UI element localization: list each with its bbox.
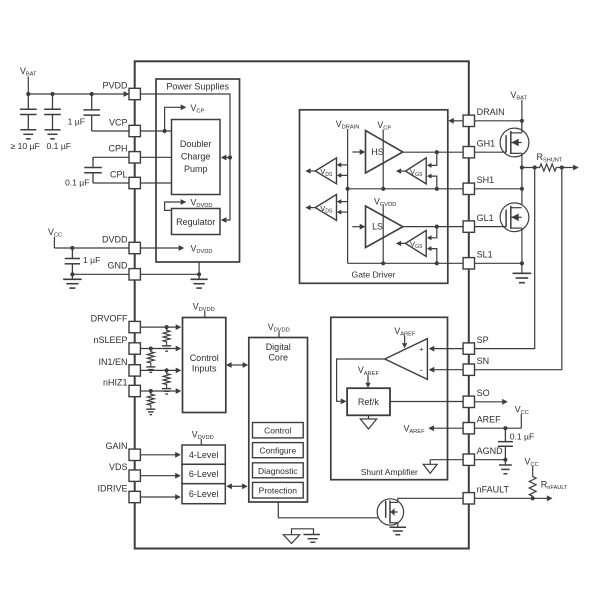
- ground power stage: [513, 272, 532, 274]
- svg-text:LS: LS: [372, 222, 383, 232]
- svg-text:Regulator: Regulator: [176, 217, 215, 227]
- arrow VCP out: [181, 104, 187, 110]
- wire GH1 external: [475, 151, 507, 153]
- wire VDVDD to control inputs: [204, 311, 206, 318]
- junction shunt node: [520, 165, 524, 169]
- junction GND-C4: [70, 272, 74, 276]
- junction SH1 node: [520, 187, 524, 191]
- resistor RSHUNT: [539, 164, 558, 171]
- svg-text:1 µF: 1 µF: [68, 117, 85, 127]
- ground M3 source: [397, 523, 399, 528]
- svg-text:AREF: AREF: [477, 415, 502, 425]
- junction SH1-VGS1: [435, 187, 439, 191]
- svg-text:VDS: VDS: [109, 462, 128, 472]
- junction VBAT-C1: [26, 92, 30, 96]
- svg-text:+: +: [419, 344, 424, 353]
- wire GND internal: [140, 273, 199, 275]
- pin SP: [463, 343, 474, 354]
- pin AGND: [463, 454, 474, 465]
- ground under C4: [71, 274, 73, 279]
- amplifier HS: [366, 131, 403, 174]
- pin GAIN: [129, 449, 140, 460]
- resistor R-nSLEEP pulldown: [147, 349, 154, 365]
- ground inside IC: [198, 274, 200, 279]
- junction PVDD-DCP: [228, 155, 232, 159]
- pin AREF: [463, 423, 474, 434]
- wire VBAT right stub: [521, 100, 523, 129]
- wire SH1 internal: [348, 188, 464, 190]
- svg-text:PVDD: PVDD: [102, 80, 128, 90]
- pin PVDD: [129, 88, 140, 99]
- arrow into PVDD pin: [124, 91, 130, 97]
- svg-text:Pump: Pump: [184, 164, 208, 174]
- arrow nHIZ1 in: [176, 388, 182, 394]
- wire GL1 internal: [403, 226, 463, 228]
- arrow VGS1 out: [396, 168, 401, 173]
- 6-level box B: [182, 484, 225, 504]
- wire shunt right: [557, 167, 573, 169]
- pin SO: [463, 396, 474, 407]
- svg-text:CPL: CPL: [110, 169, 128, 179]
- svg-text:1 µF: 1 µF: [83, 255, 100, 265]
- pin CPL: [129, 177, 140, 188]
- svg-text:SO: SO: [477, 388, 490, 398]
- capacitor C1 bulk: [27, 94, 29, 109]
- op-amp CSA: [385, 339, 428, 380]
- svg-text:VCP: VCP: [109, 117, 128, 127]
- arrow into regulator: [221, 217, 227, 223]
- 6-level box A: [182, 464, 225, 483]
- wire C3 to VCP pin: [92, 130, 129, 132]
- svg-text:SP: SP: [477, 335, 489, 345]
- ground AGND open triangle: [429, 460, 431, 465]
- wire GAIN internal: [140, 454, 176, 456]
- wire GH1 internal: [403, 151, 463, 153]
- svg-text:Doubler: Doubler: [180, 139, 212, 149]
- wire VDS internal: [140, 475, 176, 477]
- arrow DRAIN into gate driver: [448, 118, 454, 124]
- wire VGS1 bottom tap: [432, 176, 437, 189]
- wire GND pin left: [72, 273, 129, 275]
- svg-text:4-Level: 4-Level: [189, 450, 219, 460]
- wire op-amp feedback: [337, 359, 385, 401]
- arrow SP into op-amp: [429, 346, 435, 352]
- wire VCP pin to DCP: [140, 130, 171, 132]
- arrow VDVDD reg out: [181, 199, 187, 205]
- svg-text:CPH: CPH: [108, 144, 127, 154]
- wire HS input stub: [352, 151, 360, 153]
- wire AGND external: [475, 459, 506, 461]
- arrow VDS1 in top: [337, 162, 342, 167]
- svg-text:HS: HS: [371, 147, 383, 157]
- transistor M2 low-side: [500, 203, 529, 232]
- wire SN sense: [475, 168, 562, 370]
- svg-text:IN1/EN: IN1/EN: [98, 357, 127, 367]
- wire DRVOFF internal: [140, 326, 176, 328]
- junction nHIZ1 pull: [149, 389, 153, 393]
- arrow SN into op-amp: [429, 367, 435, 373]
- junction AREF cap: [503, 426, 507, 430]
- wire IN1/EN internal: [140, 369, 176, 371]
- wire CPL internal: [140, 182, 171, 184]
- svg-text:Gate Driver: Gate Driver: [352, 270, 396, 280]
- arrow IN1/EN in: [176, 368, 182, 374]
- wire DRAIN internal: [453, 120, 464, 122]
- protection sub-box: [253, 482, 304, 498]
- wire cap to CPL pin: [93, 182, 129, 184]
- pin IN1/EN: [129, 365, 140, 376]
- wire SO external: [475, 401, 503, 403]
- ground R-DRVOFF: [166, 344, 168, 346]
- svg-text:Charge: Charge: [181, 152, 211, 162]
- pin nSLEEP: [129, 343, 140, 354]
- svg-text:SL1: SL1: [477, 250, 493, 260]
- wire PS box to gnd: [198, 262, 200, 274]
- arrow VAREF opamp: [402, 343, 407, 348]
- arrow CI-DC left: [226, 362, 232, 368]
- wire M1 drain: [521, 121, 523, 133]
- junction nSLEEP pull: [149, 346, 153, 350]
- 4-level box: [182, 445, 225, 464]
- svg-text:SH1: SH1: [477, 175, 495, 185]
- svg-text:6-Level: 6-Level: [189, 469, 219, 479]
- ground R-nHIZ1: [150, 407, 152, 409]
- comparator VDS2: [315, 195, 336, 221]
- junction VGVDD-SL1: [381, 261, 385, 265]
- wire CPH internal: [140, 156, 171, 158]
- ground R-nSLEEP: [150, 365, 152, 367]
- resistor RnFAULT pullup: [529, 473, 536, 498]
- svg-text:Shunt Amplifier: Shunt Amplifier: [361, 467, 418, 477]
- pin nFAULT: [463, 493, 474, 504]
- arrow AREF to VAREF: [428, 425, 434, 431]
- arrow SO out: [502, 399, 508, 405]
- wire M2 source down: [521, 228, 523, 273]
- junction DRAIN-VBAT: [520, 119, 524, 123]
- svg-text:Control: Control: [190, 353, 219, 363]
- pin VCP: [129, 125, 140, 136]
- arrow VGS2 in bottom: [427, 246, 432, 251]
- junction SL1 node: [520, 261, 524, 265]
- junction VBAT-C2: [50, 92, 54, 96]
- wire shunt left: [522, 167, 539, 169]
- arrow into DCP: [221, 155, 227, 161]
- wire LS input stub: [352, 226, 360, 228]
- svg-text:Power Supplies: Power Supplies: [166, 82, 229, 92]
- arrow nFAULT out: [547, 495, 553, 501]
- arrow phase output: [573, 165, 579, 171]
- wire GL1 external: [475, 226, 507, 228]
- arrow VGS1 in bottom: [427, 174, 432, 179]
- svg-text:nFAULT: nFAULT: [477, 485, 510, 495]
- wire VAREF into op-amp: [404, 336, 406, 344]
- ground refk open triangle: [368, 415, 370, 419]
- svg-text:0.1 µF: 0.1 µF: [47, 141, 72, 151]
- svg-text:Configure: Configure: [259, 446, 296, 456]
- svg-text:Digital: Digital: [266, 342, 291, 352]
- svg-text:Diagnostic: Diagnostic: [258, 466, 298, 476]
- arrow VDS in: [175, 473, 181, 479]
- pin SN: [463, 364, 474, 375]
- svg-text:SN: SN: [477, 356, 490, 366]
- wire digital core to nfault fet gate: [278, 502, 385, 518]
- IC boundary box: [135, 61, 469, 548]
- arrow LS input: [360, 224, 366, 230]
- wire VGS2 bottom tap: [432, 249, 437, 264]
- arrow IDRIVE in: [175, 494, 181, 500]
- wire VCP branch up: [165, 107, 181, 131]
- svg-text:DVDD: DVDD: [102, 234, 128, 244]
- svg-text:0.1 µF: 0.1 µF: [65, 178, 90, 188]
- wire VCC stub: [53, 237, 55, 248]
- svg-text:≥ 10 µF: ≥ 10 µF: [11, 141, 40, 151]
- wire VGS2 top tap: [432, 227, 437, 238]
- doubler charge pump box U-DCP: [172, 120, 221, 195]
- wire VBAT to PVDD pin: [28, 93, 124, 95]
- wire PVDD internal: [140, 94, 230, 220]
- wire VDVDD to digital core: [278, 332, 280, 338]
- arrow GAIN in: [175, 452, 181, 458]
- junction AGND cap: [503, 458, 507, 462]
- svg-text:DRAIN: DRAIN: [477, 107, 505, 117]
- svg-text:DRVOFF: DRVOFF: [91, 314, 128, 324]
- transistor M3 nFAULT open-drain: [377, 499, 403, 525]
- wire VDRAIN vertical: [347, 129, 349, 263]
- svg-text:-: -: [420, 365, 423, 375]
- svg-text:GL1: GL1: [477, 213, 494, 223]
- wire level-protection bus: [231, 485, 243, 487]
- wire SL1 internal: [348, 262, 464, 264]
- pin CPH: [129, 152, 140, 163]
- power supplies box: [156, 79, 240, 262]
- wire PVDD to DCP stub: [226, 157, 231, 159]
- pin GL1: [463, 221, 474, 232]
- configure sub-box: [253, 443, 304, 458]
- junction SL1-VGS2: [435, 261, 439, 265]
- svg-text:IDRIVE: IDRIVE: [97, 483, 127, 493]
- capacitor C4 1uF DVDD: [71, 248, 73, 259]
- wire nHIZ1 internal: [140, 390, 176, 392]
- resistor R-IN1 pulldown: [163, 370, 170, 386]
- pin SH1: [463, 183, 474, 194]
- ground under C2: [45, 129, 61, 131]
- wire VCC AREF stub: [520, 414, 522, 428]
- pin nHIZ1: [129, 385, 140, 396]
- gate driver box: [300, 110, 448, 283]
- junction GH1-VGS1: [435, 150, 439, 154]
- wire AREF external: [475, 427, 522, 429]
- wire CPH pin to cap: [93, 156, 129, 158]
- wire VAREF into refk: [367, 375, 369, 383]
- wire M1 source to shunt node: [521, 153, 523, 207]
- junction GL1-VGS2: [435, 225, 439, 229]
- svg-text:nHIZ1: nHIZ1: [103, 377, 128, 387]
- ground tie symbol: [292, 529, 314, 535]
- wire VDS1 output: [310, 170, 315, 172]
- svg-text:0.1 µF: 0.1 µF: [510, 431, 535, 441]
- pin DRVOFF: [129, 321, 140, 332]
- ref/k box: [347, 388, 390, 415]
- resistor R-DRVOFF pulldown: [163, 327, 170, 344]
- control sub-box: [253, 423, 304, 438]
- arrow HS input: [360, 149, 366, 155]
- junction VDRAIN-SH1: [346, 187, 350, 191]
- arrow nSLEEP in: [176, 346, 182, 352]
- svg-text:GND: GND: [108, 261, 129, 271]
- arrow DVDD out: [179, 245, 185, 251]
- pin SL1: [463, 258, 474, 269]
- capacitor C6 0.1uF AREF: [504, 428, 506, 441]
- arrow VDS2 in bottom: [337, 210, 342, 215]
- pin GH1: [463, 147, 474, 158]
- capacitor C2 0.1uF: [52, 94, 54, 109]
- ground AGND external: [504, 460, 506, 465]
- junction IN1/EN pull: [165, 368, 169, 372]
- svg-text:GH1: GH1: [477, 139, 496, 149]
- junction SN tap: [560, 165, 564, 169]
- svg-text:Control: Control: [264, 426, 292, 436]
- svg-text:Core: Core: [268, 352, 288, 362]
- arrow VGS1 in top: [427, 163, 432, 168]
- arrow VDS2 in top: [337, 199, 342, 204]
- wire SN internal: [434, 369, 464, 371]
- wire SL1 external: [475, 262, 522, 264]
- svg-text:nSLEEP: nSLEEP: [93, 335, 127, 345]
- pin DRAIN: [463, 115, 474, 126]
- arrow VGS2 in top: [427, 235, 432, 240]
- wire SP internal: [434, 348, 464, 350]
- shunt amplifier box: [331, 317, 448, 479]
- transistor M1 high-side: [500, 128, 529, 157]
- arrow VGS2 out: [396, 241, 401, 246]
- wire VCP into HS: [382, 130, 384, 189]
- wire IDRIVE internal: [140, 496, 176, 498]
- wire VCC nFAULT stub: [532, 466, 534, 473]
- wire nFAULT external: [475, 497, 548, 499]
- wire SH1 external: [475, 188, 522, 190]
- svg-text:GAIN: GAIN: [105, 441, 127, 451]
- svg-text:Protection: Protection: [259, 486, 298, 496]
- capacitor C5 0.1uF CPH-CPL: [92, 157, 94, 167]
- wire refk to SO: [390, 401, 463, 403]
- wire nSLEEP internal: [140, 348, 176, 350]
- wire VGS1 output: [401, 170, 406, 172]
- pin GND: [129, 269, 140, 280]
- arrow VAREF refk: [365, 383, 370, 388]
- pin DVDD: [129, 242, 140, 253]
- wire VDS1 input stubs: [341, 164, 348, 166]
- arrow DRVOFF in: [176, 324, 182, 330]
- arrow VDS2 out: [305, 205, 310, 210]
- diagnostic sub-box: [253, 463, 304, 478]
- arrow VDS1 out: [305, 168, 310, 173]
- junction SP tap: [533, 165, 537, 169]
- arrow level bus right: [242, 483, 248, 489]
- wire VDVDD to 4-level: [200, 439, 202, 445]
- wire DVDD internal: [140, 247, 179, 249]
- amplifier LS: [366, 206, 403, 248]
- digital core box: [249, 338, 308, 503]
- resistor R-nHIZ1 pulldown: [147, 391, 154, 407]
- wire VCC to DVDD pin: [54, 247, 129, 249]
- wire CI-DC bus: [231, 364, 244, 366]
- wire AGND internal: [430, 459, 463, 461]
- wire VGS2 output: [401, 242, 406, 244]
- comparator VGS1: [405, 158, 426, 184]
- ground R-IN1: [166, 387, 168, 389]
- svg-text:Inputs: Inputs: [192, 364, 217, 374]
- wire VBAT stub: [27, 77, 29, 95]
- pin VDS: [129, 470, 140, 481]
- wire VDS2 input stubs: [341, 201, 348, 203]
- junction DRVOFF pull: [165, 325, 169, 329]
- svg-text:Ref/k: Ref/k: [358, 397, 380, 407]
- arrow level bus left: [226, 483, 232, 489]
- svg-text:AGND: AGND: [477, 446, 504, 456]
- wire VGS1 top tap: [432, 152, 437, 165]
- control inputs box: [183, 318, 226, 413]
- comparator VDS1: [315, 158, 336, 184]
- junction DVDD-C4: [70, 246, 74, 250]
- regulator box U-REG: [172, 209, 221, 235]
- wire VGVDD into LS: [382, 206, 384, 263]
- wire regulator VDVDD branch: [165, 202, 181, 210]
- ground under C1: [20, 129, 36, 131]
- svg-text:6-Level: 6-Level: [189, 489, 219, 499]
- junction nFAULT pullup: [531, 496, 535, 500]
- wire VDS2 output: [310, 207, 315, 209]
- wire SP sense: [475, 168, 535, 349]
- junction VCP-SH1: [381, 187, 385, 191]
- capacitor C3 1uF VCP: [91, 94, 93, 110]
- wire M3 drain to nFAULT pin: [398, 498, 463, 502]
- arrow into ref/k: [341, 398, 347, 404]
- comparator VGS2: [405, 230, 426, 256]
- wire DRAIN external: [475, 120, 522, 122]
- junction VBAT-C3: [90, 92, 94, 96]
- junction GND: [197, 272, 201, 276]
- pin IDRIVE: [129, 491, 140, 502]
- wire AREF internal: [434, 427, 464, 429]
- junction VCP branch: [163, 129, 167, 133]
- arrow VDS1 in bottom: [337, 173, 342, 178]
- arrow CI-DC right: [243, 362, 249, 368]
